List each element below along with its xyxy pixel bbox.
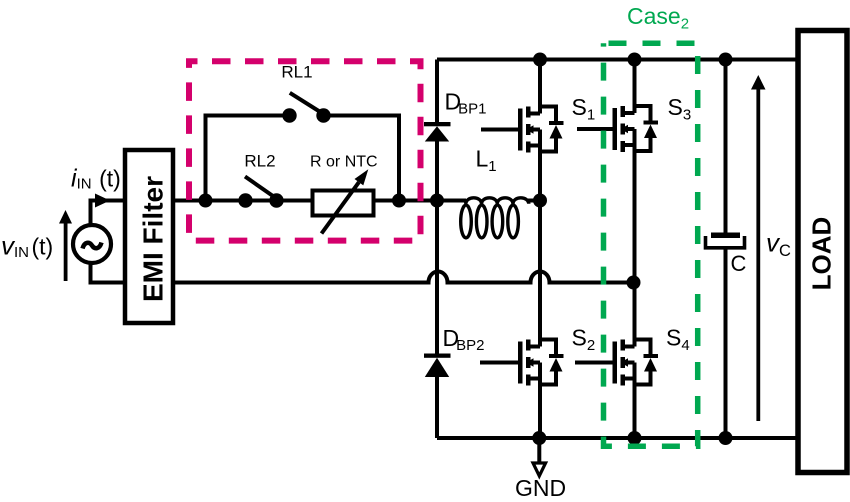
node main-RL1 junction [199,194,213,208]
svg-text:RL1: RL1 [281,63,312,82]
svg-text:iIN(t): iIN(t) [71,165,121,193]
svg-text:S2: S2 [572,325,596,355]
wire source top to EMI [91,201,126,226]
svg-text:DBP1: DBP1 [445,89,487,118]
green dashed box Case2 [604,43,698,446]
node top rail C [719,53,733,67]
svg-text:RL2: RL2 [244,151,275,170]
svg-text:EMI Filter: EMI Filter [138,176,169,302]
svg-text:vIN(t): vIN(t) [1,231,53,262]
node RL1right-main junction [392,194,406,208]
svg-text:R or NTC: R or NTC [310,154,378,171]
arrow v_IN annotation [59,210,72,281]
arrow v_C annotation [751,75,766,421]
svg-text:vC: vC [766,228,791,261]
capacitor C [706,233,745,248]
node L1 right / S1 column [533,194,547,208]
capacitor C wires [724,60,728,439]
MOSFET S1 [481,60,564,201]
wire resistor to D_BP1 node [374,199,438,203]
EMI Filter box [125,150,173,323]
resistor R or NTC (variable) [313,169,374,233]
svg-text:C: C [731,251,747,276]
svg-text:DBP2: DBP2 [443,325,485,354]
pink dashed box (RL network) [189,61,421,240]
wire source bottom to EMI [91,263,126,283]
LOAD box [798,31,847,473]
node return wire S3S4 [627,276,641,290]
relay RL1 switch [282,93,330,123]
svg-text:L1: L1 [476,146,497,176]
diode D_BP1 [424,122,451,142]
svg-text:S1: S1 [572,94,596,124]
node top rail S1 [533,53,547,67]
wire EMI return to S3 column (with hops) [173,272,633,283]
node bottom rail S2 [532,431,546,445]
node bottom rail C [719,431,733,445]
svg-text:S3: S3 [668,94,692,124]
MOSFET S2 [480,201,564,439]
left bridge column x=437 with diodes [435,60,439,439]
top rail [437,58,798,62]
ground stub [537,438,541,463]
relay RL2 switch [238,177,283,208]
svg-text:LOAD: LOAD [807,217,837,291]
svg-text:Case2: Case2 [627,3,689,33]
RL1 branch wires [206,116,400,201]
MOSFET S3 [577,60,658,283]
diode D_BP2 [424,354,451,378]
arrow i_IN current arrowhead [95,194,110,208]
bottom rail [437,436,798,440]
node bottom rail S4 [628,431,642,445]
ground symbol [533,463,546,476]
svg-text:GND: GND [515,475,566,501]
node D column / main wire [430,194,444,208]
inductor L1 [437,198,540,238]
node top rail S3 [628,53,642,67]
MOSFET S4 [575,283,658,439]
svg-text:S4: S4 [666,325,690,355]
AC source V_IN [73,225,111,263]
wire EMI to RL network [173,199,313,203]
